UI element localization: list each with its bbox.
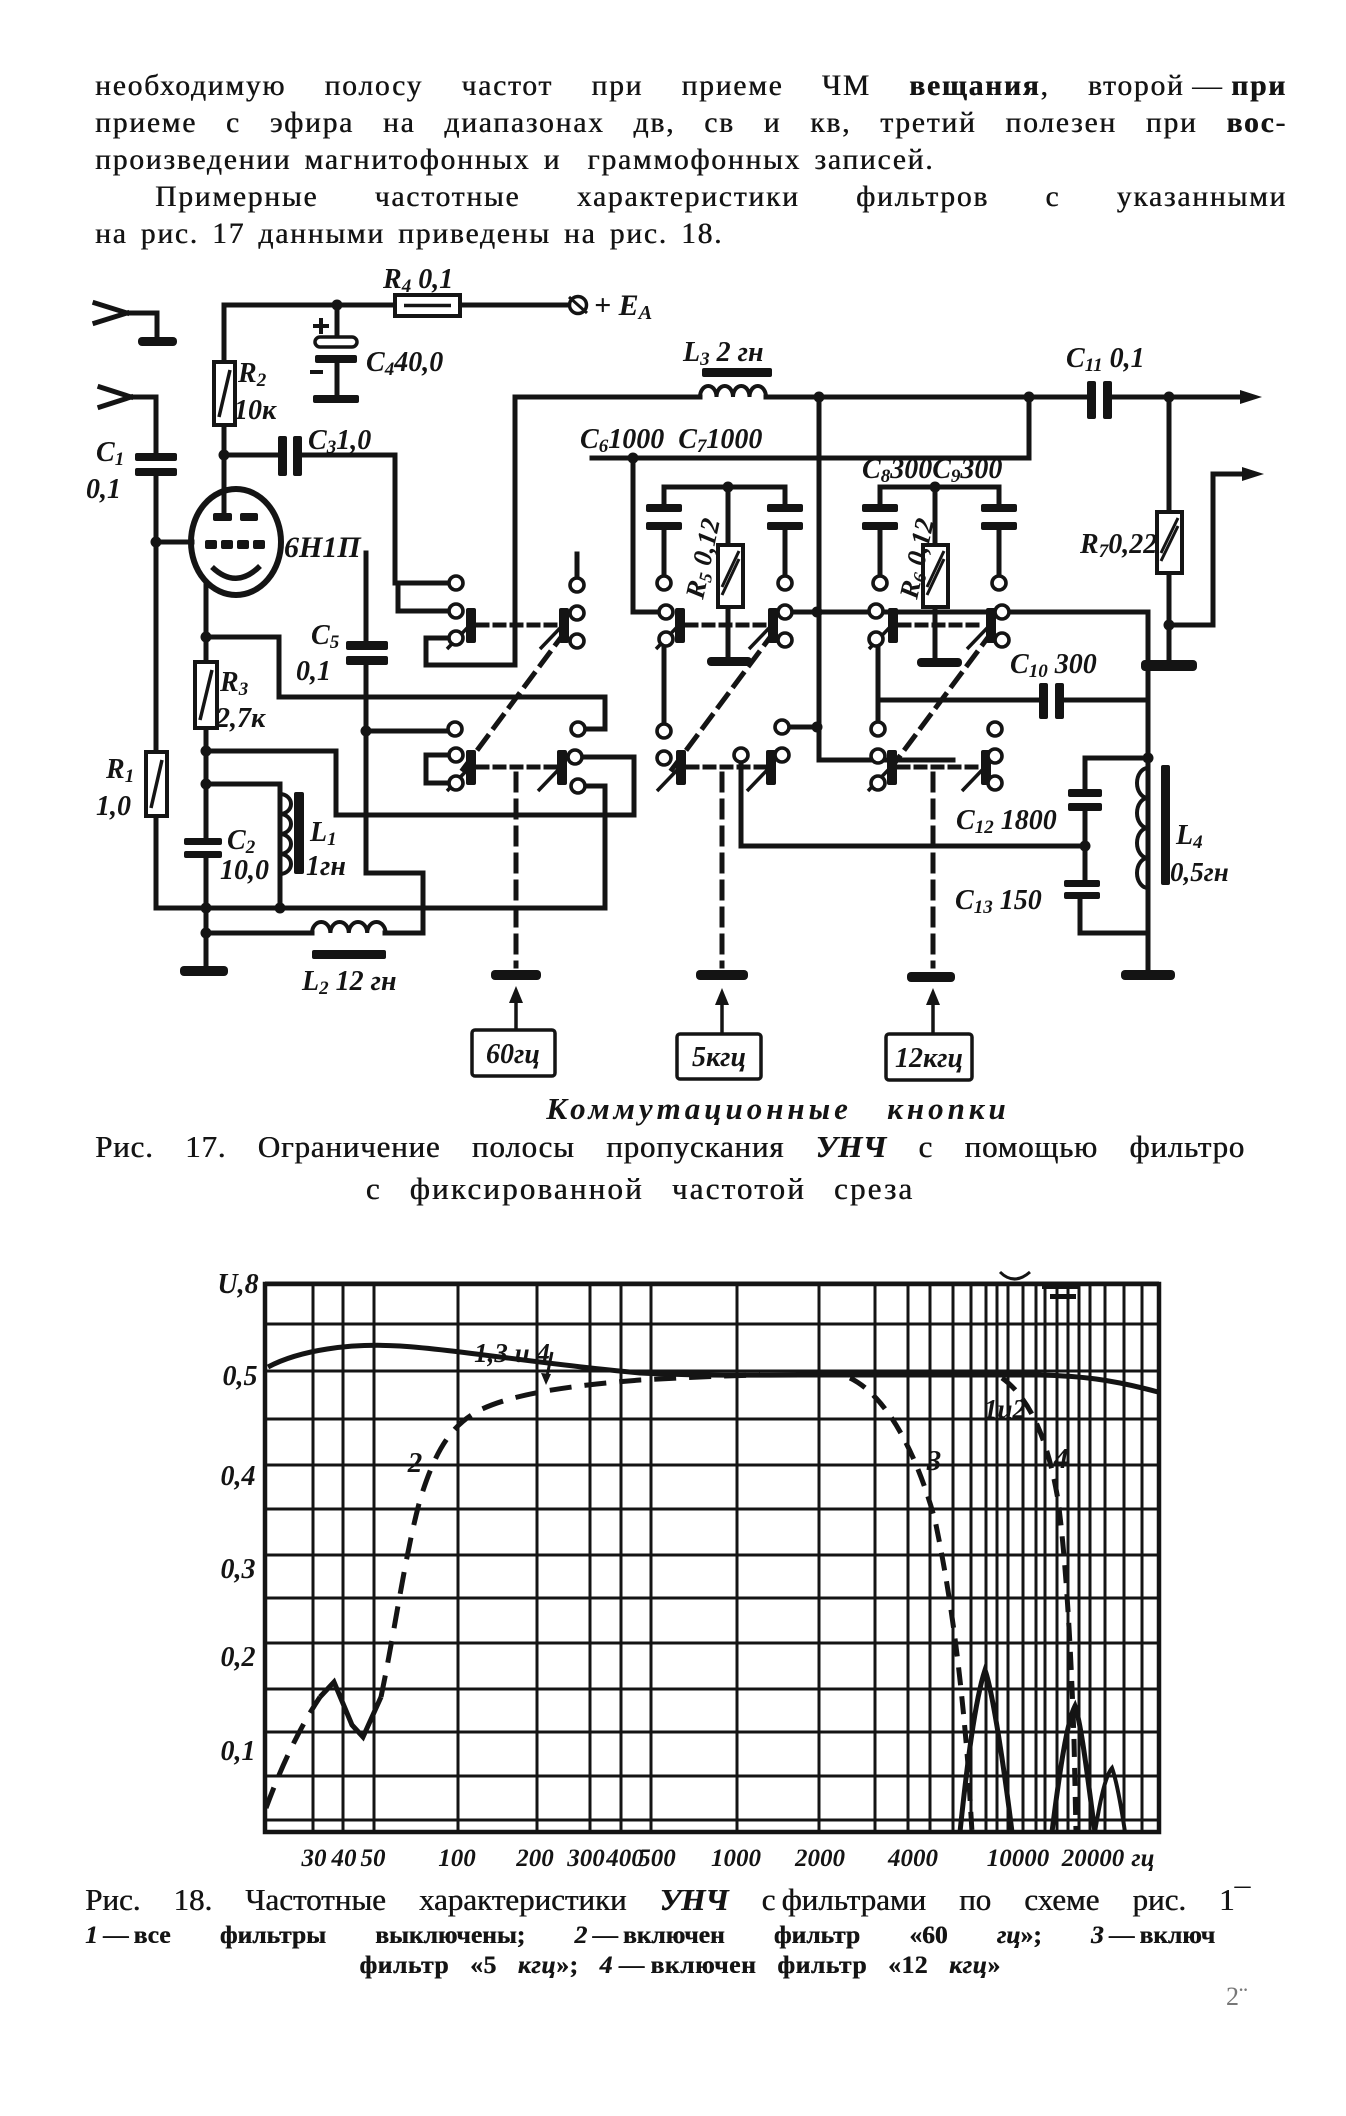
svg-text:С5: С5 <box>311 620 340 653</box>
svg-text:L4: L4 <box>1175 820 1203 853</box>
svg-text:0,1: 0,1 <box>296 656 331 687</box>
svg-text:1,0: 1,0 <box>96 791 131 822</box>
svg-text:4000: 4000 <box>887 1845 939 1872</box>
svg-text:R1: R1 <box>105 754 134 787</box>
svg-text:С11 0,1: С11 0,1 <box>1066 343 1145 376</box>
svg-text:4: 4 <box>1053 1443 1069 1475</box>
svg-text:10000: 10000 <box>987 1845 1050 1872</box>
svg-text:L2 12 гн: L2 12 гн <box>301 966 397 999</box>
svg-text:гц: гц <box>1131 1845 1154 1872</box>
svg-text:С61000 С71000: С61000 С71000 <box>580 424 762 457</box>
svg-text:40: 40 <box>331 1845 358 1872</box>
svg-text:С13 150: С13 150 <box>955 885 1042 918</box>
svg-text:0,4: 0,4 <box>221 1461 256 1492</box>
svg-text:60гц: 60гц <box>486 1039 540 1070</box>
svg-text:R70,22: R70,22 <box>1079 529 1157 562</box>
svg-text:С31,0: С31,0 <box>308 425 371 458</box>
svg-text:100: 100 <box>438 1845 476 1872</box>
svg-text:R3: R3 <box>219 667 248 700</box>
svg-text:С2: С2 <box>227 825 256 858</box>
svg-text:0,1: 0,1 <box>86 474 121 505</box>
svg-text:0,5: 0,5 <box>223 1361 258 1392</box>
svg-text:5кгц: 5кгц <box>692 1042 746 1073</box>
svg-text:20000: 20000 <box>1061 1845 1125 1872</box>
svg-text:500: 500 <box>638 1845 676 1872</box>
svg-text:L3 2 гн: L3 2 гн <box>682 337 764 370</box>
svg-text:L1: L1 <box>309 817 337 850</box>
svg-text:С440,0: С440,0 <box>366 347 443 380</box>
svg-text:0,5гн: 0,5гн <box>1170 857 1229 887</box>
svg-text:2: 2 <box>407 1447 423 1479</box>
svg-text:С12 1800: С12 1800 <box>956 805 1057 838</box>
svg-text:1000: 1000 <box>711 1845 762 1872</box>
svg-text:12кгц: 12кгц <box>895 1043 963 1074</box>
svg-text:1и2: 1и2 <box>984 1394 1026 1424</box>
svg-text:30: 30 <box>301 1845 328 1872</box>
svg-text:U,8: U,8 <box>217 1269 258 1300</box>
svg-text:50: 50 <box>361 1845 387 1872</box>
svg-text:С1: С1 <box>96 437 124 470</box>
svg-text:+ EА: + EА <box>594 289 652 324</box>
svg-text:200: 200 <box>515 1845 554 1872</box>
svg-text:0,3: 0,3 <box>221 1554 256 1585</box>
svg-text:300: 300 <box>566 1845 605 1872</box>
svg-text:R4 0,1: R4 0,1 <box>382 264 453 297</box>
svg-text:1,3 и 4: 1,3 и 4 <box>474 1338 550 1368</box>
svg-text:10к: 10к <box>234 395 277 426</box>
svg-text:Коммутационные кнопки: Коммутационные кнопки <box>545 1091 1010 1126</box>
svg-text:3: 3 <box>926 1445 942 1477</box>
svg-text:1гн: 1гн <box>306 851 346 882</box>
svg-text:0,2: 0,2 <box>221 1642 256 1673</box>
svg-text:2,7к: 2,7к <box>215 703 266 734</box>
svg-text:С10 300: С10 300 <box>1010 649 1097 682</box>
svg-text:10,0: 10,0 <box>220 855 269 886</box>
svg-text:2000: 2000 <box>794 1845 846 1872</box>
svg-text:R2: R2 <box>237 358 267 391</box>
svg-text:6Н1П: 6Н1П <box>284 531 362 564</box>
svg-text:0,1: 0,1 <box>221 1736 256 1767</box>
